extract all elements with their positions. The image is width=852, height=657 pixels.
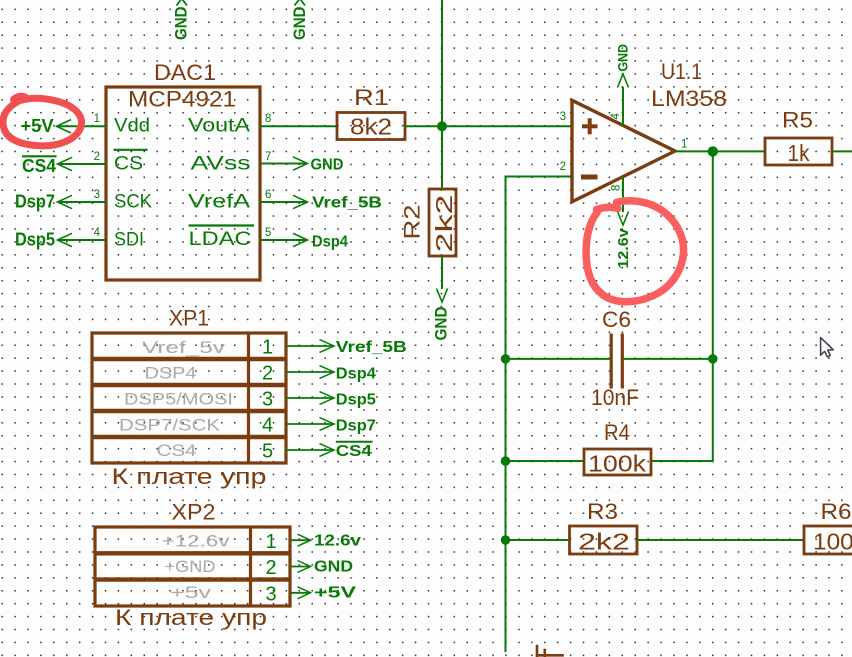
svg-text:C6: C6 (602, 307, 631, 332)
svg-text:+5V: +5V (21, 116, 54, 136)
junction node R3 left (501, 535, 511, 545)
wire pin8 VoutA to R1 (260, 125, 337, 127)
svg-text:1: 1 (94, 113, 100, 125)
wire R4 right (651, 460, 713, 462)
svg-text:DAC1: DAC1 (154, 60, 216, 85)
wire op-amp V+ to GND flag (622, 87, 624, 126)
svg-text:Dsp7: Dsp7 (336, 417, 376, 434)
svg-text:Dsp5: Dsp5 (15, 230, 55, 250)
wire minus input feedback (507, 176, 573, 178)
svg-text:3: 3 (560, 111, 566, 123)
wire vertical from top edge to R2 (441, 0, 443, 189)
wire output vertical bus (712, 151, 714, 461)
svg-text:CS: CS (114, 154, 143, 175)
resistor R5 (765, 108, 832, 167)
wire R4 left (506, 460, 585, 462)
svg-text:12.6v: 12.6v (615, 228, 632, 269)
svg-text:R6: R6 (821, 499, 852, 524)
svg-text:1: 1 (681, 139, 687, 151)
svg-text:К плате упр: К плате упр (115, 605, 267, 630)
svg-text:Dsp4: Dsp4 (312, 234, 348, 251)
svg-text:GND: GND (314, 559, 353, 576)
pin name LDAC (active low) (189, 226, 255, 251)
svg-text:MCP4921: MCP4921 (128, 87, 236, 112)
svg-text:DSP7/SCK: DSP7/SCK (119, 416, 221, 435)
svg-text:VoutA: VoutA (188, 116, 250, 137)
wire XP2 pin3 to +5V (290, 587, 311, 599)
wire R1 to op-amp plus input (405, 125, 572, 127)
svg-text:2k2: 2k2 (431, 195, 457, 253)
connector XP1 (92, 306, 286, 464)
svg-text:100k: 100k (588, 451, 647, 477)
svg-text:3: 3 (265, 583, 276, 605)
svg-text:R5: R5 (782, 108, 813, 133)
svg-text:R4: R4 (604, 420, 630, 445)
wire XP1 pin1 to Vref_5B (286, 340, 334, 353)
svg-text:LM358: LM358 (651, 86, 727, 111)
svg-text:CS4: CS4 (22, 156, 56, 176)
wire pin2 CS to CS4 (58, 157, 107, 170)
svg-text:1: 1 (262, 337, 273, 359)
svg-text:+12.6v: +12.6v (162, 532, 231, 551)
svg-text:1k: 1k (788, 140, 810, 166)
svg-text:4: 4 (94, 227, 101, 239)
svg-text:8k2: 8k2 (350, 114, 392, 140)
svg-text:4: 4 (262, 415, 273, 437)
svg-text:8: 8 (265, 113, 271, 125)
resistor R3 (570, 499, 638, 555)
svg-text:R3: R3 (587, 499, 618, 524)
resistor R2 (400, 189, 458, 256)
wire R3 to R6 (637, 539, 804, 541)
svg-text:2: 2 (560, 161, 566, 173)
svg-text:Dsp5: Dsp5 (336, 391, 376, 408)
wire op-amp V- to 12.6v flag (622, 177, 624, 212)
wire XP1 pin5 to CS4 (286, 444, 334, 457)
svg-text:2k2: 2k2 (578, 529, 630, 555)
ground flag GND top-right (291, 0, 309, 40)
svg-text:+5V: +5V (314, 585, 356, 602)
svg-text:Vref_5B: Vref_5B (312, 195, 382, 212)
op-amp U1.1 LM358 (572, 59, 727, 202)
svg-text:GND: GND (173, 6, 191, 40)
net flag 12.6v below op-amp (615, 212, 632, 269)
svg-text:XP2: XP2 (172, 500, 216, 525)
ground flag GND top-left (173, 0, 191, 40)
svg-text:+5v: +5v (170, 583, 212, 602)
svg-text:GND: GND (311, 157, 344, 174)
wire pin5 LDAC to Dsp4 (260, 233, 308, 246)
svg-text:6: 6 (265, 189, 271, 201)
wire XP2 pin2 to GND (290, 561, 311, 573)
svg-text:4: 4 (610, 113, 622, 120)
connector XP2 (95, 500, 290, 607)
wire XP1 pin4 to Dsp7 (286, 418, 334, 431)
junction node R4 left (501, 456, 511, 466)
svg-text:3: 3 (94, 189, 100, 201)
resistor R4 (584, 420, 651, 477)
svg-text:U1.1: U1.1 (661, 59, 702, 84)
net label CS4 (active low) (22, 156, 57, 176)
junction node output (708, 146, 718, 156)
wire XP1 pin2 to Dsp4 (286, 366, 334, 379)
annotation red circle around 12.6v (586, 201, 683, 302)
wire XP1 pin3 to Dsp5 (286, 392, 334, 405)
svg-text:AVss: AVss (191, 154, 251, 175)
junction node R1/R2 (437, 121, 447, 131)
svg-text:GND: GND (291, 6, 309, 40)
svg-text:3: 3 (262, 389, 273, 411)
net label CS4 (active low) (336, 442, 373, 460)
wire pin6 VrefA to Vref_5B (260, 195, 308, 208)
junction node C6 right (708, 354, 718, 364)
svg-text:2: 2 (262, 363, 273, 385)
svg-text:DSP4: DSP4 (145, 364, 197, 383)
wire C6 left (506, 358, 611, 360)
mouse cursor (821, 338, 834, 357)
wire op-amp output to R5 (675, 150, 765, 152)
svg-text:7: 7 (265, 151, 271, 163)
svg-text:Vdd: Vdd (114, 116, 150, 137)
svg-text:DSP5/MOSI: DSP5/MOSI (124, 390, 233, 409)
wire pin3 SCK to Dsp7 (58, 195, 107, 208)
wire pin7 AVss to GND (260, 157, 308, 170)
svg-text:100k: 100k (813, 529, 852, 555)
wire R5 to right edge (832, 150, 852, 152)
svg-text:2: 2 (94, 151, 100, 163)
svg-text:CS4: CS4 (336, 443, 372, 460)
svg-text:10nF: 10nF (591, 385, 639, 410)
resistor R1 (337, 85, 405, 140)
svg-text:12.6v: 12.6v (314, 533, 361, 550)
svg-text:Dsp7: Dsp7 (15, 192, 55, 212)
resistor R6 (clipped at edge) (804, 499, 852, 555)
svg-text:VrefA: VrefA (188, 192, 250, 213)
annotation red circle around +5V (3, 96, 82, 146)
svg-text:R2: R2 (400, 205, 425, 240)
wire XP2 pin1 to 12.6v (290, 534, 311, 546)
pin name CS (active low) (114, 150, 148, 175)
wire R3 left (506, 539, 570, 541)
svg-text:1: 1 (265, 531, 276, 553)
svg-text:К плате упр: К плате упр (112, 464, 267, 489)
svg-text:Vref_5B: Vref_5B (336, 339, 407, 356)
wire C6 right (623, 358, 713, 360)
svg-text:Dsp4: Dsp4 (336, 366, 376, 383)
svg-text:LDAC: LDAC (189, 229, 252, 250)
svg-text:R1: R1 (354, 85, 389, 110)
wire pin1 Vdd to +5V (57, 120, 107, 133)
capacitor C6 (591, 307, 639, 410)
svg-text:GND: GND (615, 44, 631, 72)
IC DAC1 MCP4921 body (106, 60, 260, 280)
wire R2 to GND flag (441, 256, 443, 289)
svg-text:XP1: XP1 (169, 306, 209, 331)
svg-text:SCK: SCK (114, 192, 152, 213)
ground flag GND above op-amp (615, 44, 631, 88)
wire pin4 SDI to Dsp5 (58, 233, 107, 246)
svg-text:GND: GND (433, 306, 451, 340)
svg-text:5: 5 (265, 227, 271, 239)
partial symbol at bottom edge (536, 645, 564, 657)
svg-text:2: 2 (265, 557, 276, 579)
ground flag GND below R2 (433, 289, 451, 341)
wire feedback vertical bus (505, 176, 507, 653)
svg-text:Vref_5v: Vref_5v (142, 338, 226, 357)
svg-text:SDI: SDI (114, 230, 144, 251)
op-amp minus symbol (581, 175, 598, 180)
op-amp plus symbol (582, 118, 598, 134)
svg-text:5: 5 (262, 441, 273, 463)
junction node C6 left (501, 354, 511, 364)
svg-text:8: 8 (611, 185, 623, 191)
svg-text:+GND: +GND (165, 557, 216, 576)
svg-text:CS4: CS4 (157, 441, 197, 460)
